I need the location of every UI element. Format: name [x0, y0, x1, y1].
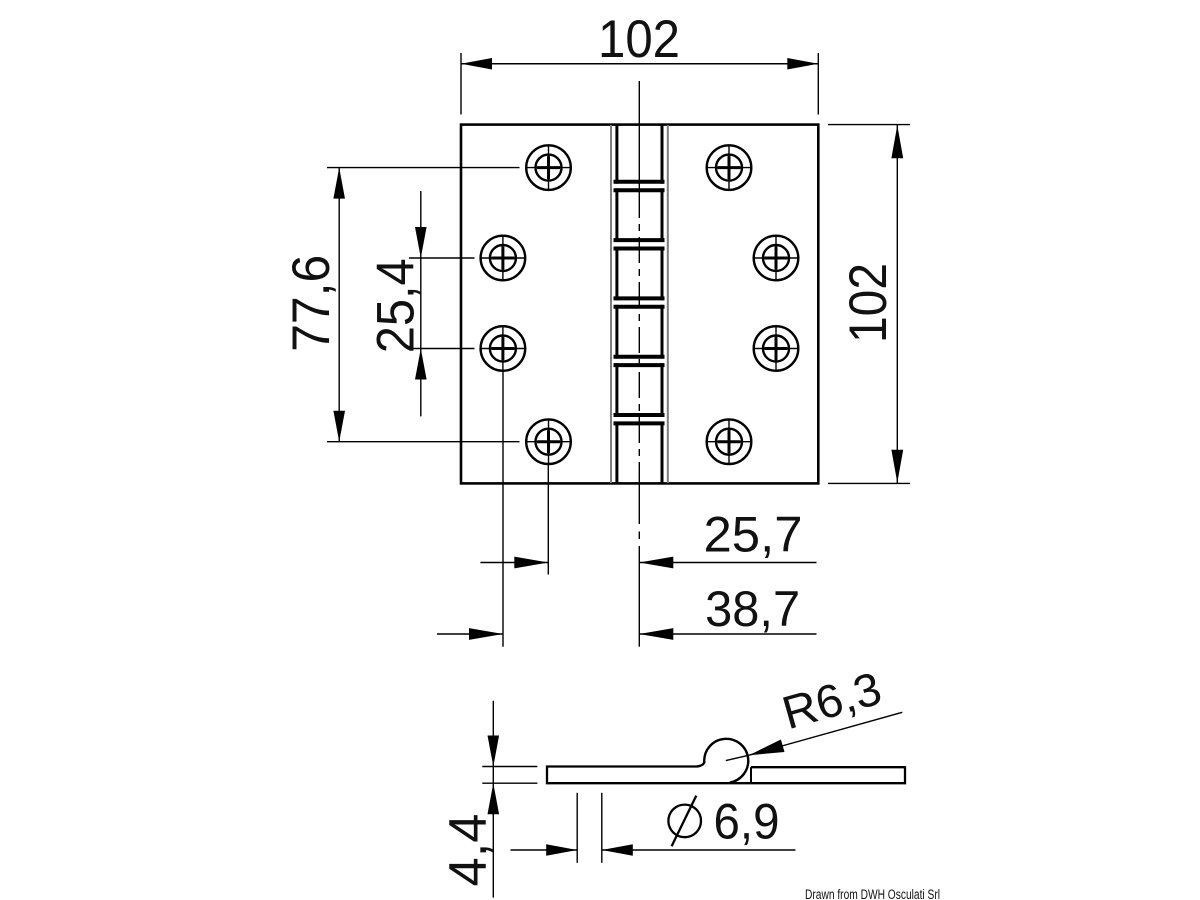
hinge barrel black line right [661, 124, 664, 483]
screw hole R4 [707, 419, 752, 464]
svg-text:102: 102 [598, 10, 680, 69]
screw hole L3 [480, 326, 525, 371]
knuckle divider 3 [614, 298, 665, 306]
hinge barrel gray line left [610, 125, 612, 483]
dimension 25,7: extension line from hole L4 [547, 463, 549, 575]
knuckle divider 4 [614, 357, 665, 365]
svg-text:77,6: 77,6 [282, 255, 341, 352]
knuckle divider 1 [614, 182, 665, 190]
side view barrel knuckle profile [697, 739, 748, 783]
dimension 38,7: dimension line with outside arrows [437, 628, 817, 640]
dimension 77,6: dimension line with arrows [333, 168, 345, 442]
dimension 102 right: extension lines [828, 125, 910, 484]
screw hole L2 [480, 236, 525, 281]
svg-text:4,4: 4,4 [439, 814, 498, 887]
dimension 25,7: dimension line with outside arrows [480, 557, 816, 569]
dimension 102 top: extension lines [461, 53, 818, 115]
dimension 25,4: dimension line with outside arrows [415, 191, 427, 416]
hinge barrel gray line right [667, 125, 669, 483]
screw hole L1 [526, 145, 571, 190]
svg-text:38,7: 38,7 [705, 580, 800, 637]
dimension 25,7: label [704, 506, 803, 563]
screw hole R2 [754, 236, 799, 281]
dimension 102 top: dimension line with arrows [461, 58, 818, 70]
radius leader R6,3 [726, 712, 903, 760]
dimension 102 top: label [598, 10, 680, 69]
hinge plate outline (top view) [461, 125, 818, 484]
side view right leaf edge line [750, 767, 752, 782]
dimension 102 right: dimension line with arrows [891, 125, 903, 483]
knuckle divider 5 [614, 415, 665, 423]
dimension 4,4: label (rotated) [439, 814, 498, 887]
svg-text:Drawn from DWH Osculati Srl: Drawn from DWH Osculati Srl [805, 887, 940, 900]
svg-text:6,9: 6,9 [714, 794, 780, 850]
side view leaf plate [547, 767, 905, 784]
dimension 77,6: label (rotated) [282, 255, 341, 352]
dimension dia 6,9: pin extension lines [577, 793, 602, 863]
svg-text:25,7: 25,7 [704, 506, 803, 563]
dimension dia 6,9: label [714, 794, 780, 850]
dimension 4,4: dimension line with outside arrows [488, 701, 500, 898]
svg-text:25,4: 25,4 [367, 258, 426, 353]
screw hole R1 [707, 145, 752, 190]
dimension 77,6: extension lines [327, 168, 520, 442]
dimension dia 6,9: diameter symbol [668, 796, 701, 847]
screw hole R3 [754, 326, 799, 371]
dimension dia 6,9: dimension line with outside arrows [511, 844, 796, 856]
dimension 38,7: label [705, 580, 800, 637]
hinge pin centerline [638, 81, 640, 647]
dimension 4,4: extension lines [482, 767, 537, 784]
screw hole L4 [526, 419, 571, 464]
dimension 38,7: extension line from hole L3 [502, 370, 504, 647]
hinge barrel black line left [615, 124, 618, 483]
svg-text:102: 102 [839, 263, 898, 343]
radius label R6,3 (rotated) [777, 662, 887, 739]
dimension 25,4: extension lines [409, 258, 475, 349]
dimension 102 right: label (rotated) [839, 263, 898, 343]
footer credit text [805, 887, 940, 900]
knuckle divider 2 [614, 240, 665, 248]
dimension 25,4: label (rotated) [367, 258, 426, 353]
